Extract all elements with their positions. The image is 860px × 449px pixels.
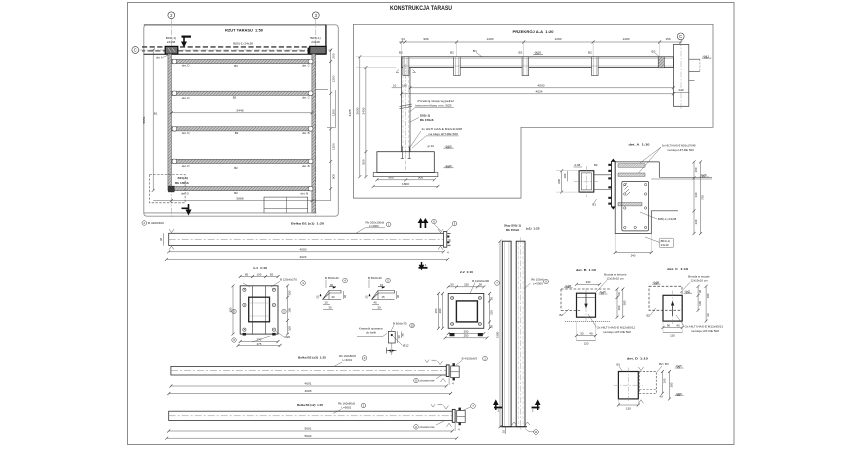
bracket piece (457, 411, 466, 423)
svg-text:L=4001: L=4001 (343, 358, 353, 362)
right dims (616, 289, 618, 317)
anchor arrow up (671, 302, 673, 316)
svg-text:200: 200 (438, 308, 442, 313)
svg-text:5601: 5601 (305, 427, 312, 431)
svg-text:2-2 1:10: 2-2 1:10 (460, 270, 473, 274)
svg-text:270: 270 (257, 337, 262, 341)
svg-text:det. D: det. D (182, 131, 190, 135)
svg-text:10: 10 (410, 324, 414, 328)
svg-text:330: 330 (694, 192, 698, 197)
svg-text:betonem klasy min. B25: betonem klasy min. B25 (416, 103, 452, 107)
svg-text:4x HILTI HAS-E M12x110/28: 4x HILTI HAS-E M12x110/28 (422, 127, 463, 131)
anchor bolt heads (608, 164, 611, 205)
leader lines from corners (243, 283, 250, 287)
svg-text:50: 50 (489, 325, 493, 329)
svg-text:38: 38 (159, 238, 163, 242)
svg-text:B 65x6x40: B 65x6x40 (368, 276, 382, 280)
svg-text:90: 90 (667, 323, 671, 327)
horizontal beam row1 B3 (171, 59, 312, 63)
detail 5 wedge (372, 291, 395, 300)
svg-text:30: 30 (698, 290, 702, 294)
svg-text:det. A 1:10: det. A 1:10 (629, 142, 650, 146)
footing (377, 152, 434, 173)
svg-text:B2: B2 (399, 51, 403, 55)
svg-text:150: 150 (489, 310, 493, 315)
svg-text:B2: B2 (647, 314, 651, 318)
svg-text:4024: 4024 (300, 255, 307, 259)
svg-text:30: 30 (328, 306, 332, 310)
label B04 box (659, 238, 674, 247)
bottom dims (663, 327, 682, 329)
svg-text:40: 40 (589, 331, 593, 335)
dim 240 at wall base (673, 92, 688, 94)
right end plate (452, 409, 455, 422)
svg-text:1200: 1200 (332, 75, 336, 82)
bottom dims (448, 333, 484, 335)
svg-text:B 4200/400: B 4200/400 (148, 221, 164, 225)
svg-text:40: 40 (676, 323, 680, 327)
svg-text:M20: M20 (285, 335, 291, 339)
svg-text:10: 10 (501, 430, 505, 434)
svg-text:B1: B1 (154, 112, 158, 116)
right vertical beam in plan (312, 54, 316, 213)
wall step outline top right (327, 90, 336, 128)
right dims (697, 286, 699, 310)
column S01 (401, 68, 403, 152)
footing dims (377, 179, 434, 181)
svg-text:1200: 1200 (332, 109, 336, 116)
top dimension line (399, 41, 681, 43)
bolts (243, 288, 276, 331)
svg-text:C: C (679, 34, 682, 39)
svg-text:2630: 2630 (355, 107, 359, 114)
svg-text:900: 900 (332, 174, 336, 179)
svg-text:250: 250 (464, 334, 469, 338)
svg-text:B 65x6x40: B 65x6x40 (325, 276, 339, 280)
left dim 38 (163, 233, 165, 245)
svg-text:30: 30 (389, 349, 393, 353)
B1 square section (618, 372, 638, 399)
B1 beam lines to plate (594, 174, 612, 176)
svg-text:25: 25 (365, 295, 369, 299)
svg-text:B05(-1) 24x38: B05(-1) 24x38 (233, 42, 253, 46)
svg-text:det. D: det. D (182, 64, 190, 68)
base line and welds (501, 426, 528, 428)
right dim line of plan (330, 50, 332, 201)
svg-text:B2: B2 (450, 51, 454, 55)
svg-text:B2: B2 (519, 51, 523, 55)
svg-text:gr.10: gr.10 (428, 144, 435, 148)
horizontal beam row5 B2 (174, 187, 312, 191)
svg-text:5551: 5551 (142, 116, 146, 123)
svg-text:240: 240 (631, 254, 636, 258)
svg-text:na kleju HIT-RE 500: na kleju HIT-RE 500 (603, 330, 631, 334)
bottom dim 150 (618, 404, 638, 406)
detail 4 wedge (323, 291, 342, 300)
bottom dims (577, 335, 596, 337)
svg-text:B2: B2 (234, 166, 238, 170)
svg-text:B 120x6x270: B 120x6x270 (280, 278, 297, 282)
svg-text:6x HILTI HAS-E M20x170/48: 6x HILTI HAS-E M20x170/48 (662, 143, 696, 147)
section 1 marker top (419, 219, 428, 228)
beam B2 body (171, 366, 446, 375)
svg-text:2x HILTI HAS-E M12x90/11: 2x HILTI HAS-E M12x90/11 (597, 325, 635, 329)
ribs between tube and plate (252, 286, 254, 297)
svg-text:24x40: 24x40 (661, 243, 669, 247)
svg-text:4024: 4024 (536, 90, 543, 94)
svg-text:Rb 150x6: Rb 150x6 (506, 228, 519, 232)
svg-text:det. D 1:10: det. D 1:10 (627, 357, 648, 361)
footing S01 dashed outline (150, 174, 186, 202)
svg-text:Rb 150x6: Rb 150x6 (175, 181, 189, 185)
svg-text:det. C: det. C (302, 64, 310, 68)
svg-text:100: 100 (287, 290, 291, 295)
svg-text:det. D: det. D (182, 96, 190, 100)
tube (456, 301, 477, 322)
top dims (448, 286, 484, 288)
baseplate (448, 294, 484, 329)
section A cut marker top (182, 36, 192, 46)
top dim 65 100 65 (240, 276, 278, 278)
svg-text:B1: B1 (617, 362, 621, 366)
svg-text:(x1) 1:25: (x1) 1:25 (526, 227, 540, 231)
svg-text:B2: B2 (588, 51, 592, 55)
svg-text:12x19x10 cm: 12x19x10 cm (691, 278, 709, 282)
svg-text:B3: B3 (234, 64, 238, 68)
svg-text:Belka B1 (x1) 1:20: Belka B1 (x1) 1:20 (291, 222, 324, 226)
svg-text:75: 75 (401, 333, 405, 337)
beam B2 end (663, 295, 682, 321)
svg-text:5448: 5448 (237, 108, 244, 112)
det B concrete outline dashed (561, 289, 611, 311)
section 2 markers (494, 401, 502, 411)
svg-text:do belki: do belki (366, 330, 376, 334)
svg-text:50: 50 (489, 297, 493, 301)
svg-text:L=5602: L=5602 (342, 406, 352, 410)
right dims (489, 294, 491, 329)
svg-text:Rb 150x6: Rb 150x6 (420, 118, 434, 122)
svg-text:det. A: det. A (156, 55, 163, 59)
svg-text:100: 100 (287, 326, 291, 331)
svg-text:190: 190 (617, 305, 621, 310)
svg-text:15: 15 (380, 283, 384, 287)
right dims (662, 372, 664, 394)
B2/B3 dashed beam side (639, 372, 656, 394)
svg-text:50: 50 (450, 283, 454, 287)
svg-text:3300: 3300 (496, 331, 500, 338)
connecting line row1 right (315, 89, 328, 91)
svg-text:100: 100 (706, 293, 710, 298)
svg-text:906: 906 (423, 37, 428, 41)
anchor bolts in footing (401, 147, 411, 159)
svg-text:100: 100 (563, 173, 567, 178)
svg-text:90: 90 (706, 313, 710, 317)
svg-text:B04(-1): B04(-1) (661, 239, 671, 243)
svg-text:275: 275 (257, 342, 262, 346)
top dim 240 (577, 283, 600, 285)
svg-text:200: 200 (332, 53, 336, 58)
svg-text:1200: 1200 (332, 143, 336, 150)
dim 10 under base (505, 427, 507, 434)
svg-text:obustronnie: obustronnie (420, 425, 435, 429)
svg-text:100: 100 (698, 301, 702, 306)
grid line 3 (315, 19, 317, 217)
svg-text:1200: 1200 (555, 37, 562, 41)
svg-text:obustronnie: obustronnie (420, 379, 435, 383)
circled 6 (432, 219, 437, 224)
svg-text:240: 240 (678, 88, 683, 92)
svg-text:B 60x6x75: B 60x6x75 (393, 322, 407, 326)
svg-text:12x19x10 cm: 12x19x10 cm (607, 276, 625, 280)
svg-text:-0.26: -0.26 (534, 51, 541, 55)
svg-text:190: 190 (287, 307, 291, 312)
weld right (438, 229, 443, 233)
vertical beam B1 in plan (168, 54, 172, 191)
leader B1 (476, 53, 482, 57)
svg-text:B1: B1 (592, 202, 596, 206)
svg-text:120: 120 (670, 334, 675, 338)
obustronnie circled 8 (414, 425, 419, 430)
svg-text:2430: 2430 (362, 107, 366, 114)
svg-text:5602: 5602 (305, 434, 312, 438)
svg-text:det. C: det. C (302, 96, 310, 100)
svg-text:24x38: 24x38 (311, 40, 320, 44)
weld marks (639, 367, 644, 371)
svg-text:500: 500 (362, 159, 366, 164)
circled 3 (452, 221, 457, 226)
plan top wall outline thick (144, 24, 326, 26)
svg-text:4000: 4000 (300, 248, 307, 252)
svg-text:na kleju HIT-RE 500: na kleju HIT-RE 500 (429, 132, 459, 136)
svg-text:det. D: det. D (182, 164, 190, 168)
svg-text:200: 200 (557, 179, 561, 184)
welds at right end (438, 361, 443, 365)
svg-text:S01(-1): S01(-1) (178, 176, 188, 180)
right end plate (443, 232, 446, 248)
svg-text:B2 / B3: B2 / B3 (659, 362, 669, 366)
bottom hatch strip (565, 320, 610, 322)
svg-text:B3: B3 (652, 50, 656, 54)
svg-text:-0.08: -0.08 (574, 163, 581, 167)
svg-text:40: 40 (373, 301, 377, 305)
section 1 marker bottom (419, 262, 428, 269)
svg-text:3428: 3428 (348, 109, 352, 116)
drawing frame (128, 3, 735, 445)
beam B2 end entering groove (577, 293, 596, 317)
svg-text:40: 40 (660, 394, 664, 398)
concrete outline (615, 162, 678, 234)
svg-text:10: 10 (324, 301, 328, 305)
svg-text:240: 240 (586, 280, 591, 284)
svg-text:230: 230 (694, 219, 698, 224)
wall column at grid 2 (165, 46, 178, 54)
svg-text:11: 11 (535, 430, 538, 434)
main beam B1 elevation (402, 57, 674, 68)
beam B1 body (169, 233, 444, 245)
corner bolts extension marks (450, 333, 455, 336)
svg-text:B2: B2 (233, 96, 237, 100)
svg-text:Ø12: Ø12 (403, 344, 409, 348)
svg-text:160: 160 (694, 167, 698, 172)
svg-text:1200: 1200 (623, 37, 630, 41)
svg-text:900: 900 (388, 176, 393, 180)
svg-text:50: 50 (479, 283, 483, 287)
svg-text:30: 30 (396, 295, 400, 299)
svg-text:160: 160 (662, 378, 666, 383)
svg-text:20: 20 (343, 295, 347, 299)
circled 11 (534, 430, 539, 435)
weld symbols left end (169, 229, 174, 233)
svg-text:1200: 1200 (487, 37, 494, 41)
horizontal beam row4 B2 (171, 159, 312, 163)
bottom dim 240 (615, 252, 651, 254)
svg-text:PRZEKRÓJ A-A 1:20: PRZEKRÓJ A-A 1:20 (513, 29, 554, 34)
rebar circles (624, 183, 647, 228)
right dims (287, 286, 289, 334)
svg-text:L=3300: L=3300 (533, 281, 543, 285)
small dims 10 150 (392, 87, 402, 89)
B2 stub hangers (403, 57, 598, 76)
section A-A enclosing box (353, 24, 713, 198)
baseplate (240, 286, 278, 334)
svg-text:B 4/100x6/3: B 4/100x6/3 (462, 357, 478, 361)
svg-text:B2: B2 (560, 313, 564, 317)
svg-text:34: 34 (401, 37, 405, 41)
svg-text:det. B 1:10: det. B 1:10 (576, 268, 596, 272)
svg-text:det. C 1:10: det. C 1:10 (667, 267, 688, 271)
section A cut marker bottom (182, 204, 191, 214)
right end plate (446, 365, 449, 377)
svg-text:150: 150 (402, 84, 407, 88)
left dim line 5551 (152, 50, 154, 190)
vertical extension lines from dim to beam (402, 42, 681, 57)
left dims (442, 294, 444, 329)
svg-text:RZUT TARASU 1:50: RZUT TARASU 1:50 (225, 28, 263, 32)
obustronnie circled 8 (414, 378, 419, 383)
svg-text:1-1 1:10: 1-1 1:10 (253, 266, 267, 270)
wall at grid C (673, 45, 688, 107)
svg-text:Belka B2 (x3) 1:25: Belka B2 (x3) 1:25 (298, 356, 326, 360)
svg-text:B1: B1 (473, 49, 477, 53)
left dims (561, 171, 563, 192)
svg-text:4001: 4001 (305, 382, 312, 386)
svg-text:30: 30 (331, 295, 335, 299)
svg-text:det. B: det. B (301, 192, 309, 196)
svg-text:50: 50 (580, 331, 584, 335)
svg-text:150: 150 (464, 283, 469, 287)
wall notch right (689, 58, 700, 60)
svg-text:5888: 5888 (237, 196, 244, 200)
svg-text:L=4000: L=4000 (369, 224, 379, 228)
svg-text:B2: B2 (234, 191, 238, 195)
svg-text:200: 200 (669, 382, 673, 387)
horizontal beam row3 B2 (171, 127, 312, 131)
left dims (232, 286, 234, 334)
svg-text:B05(-1) 24x38: B05(-1) 24x38 (658, 217, 677, 221)
left small tube detail (579, 171, 594, 192)
plan lower slab edge (144, 212, 317, 214)
svg-text:4000: 4000 (538, 84, 545, 88)
svg-text:150: 150 (626, 406, 631, 410)
svg-text:det. B: det. B (302, 164, 310, 168)
column break marks (400, 104, 413, 107)
wall column at grid 3 (310, 46, 326, 54)
bolts (451, 296, 482, 325)
svg-text:4005: 4005 (305, 389, 312, 393)
beam B3 body (169, 411, 453, 420)
svg-text:24x38: 24x38 (167, 40, 176, 44)
bottom dims (240, 341, 278, 343)
svg-text:1: 1 (425, 263, 427, 267)
svg-text:100: 100 (256, 272, 261, 276)
column bar left (view) (502, 241, 511, 427)
svg-text:25: 25 (316, 295, 320, 299)
stirrup in concrete (622, 181, 649, 231)
svg-text:det. B: det. B (302, 131, 310, 135)
end plate (612, 161, 616, 206)
grid line C (139, 49, 332, 51)
horizontal beam row2 B2 (171, 91, 312, 95)
svg-text:Belka B3 (x2) 1:25: Belka B3 (x2) 1:25 (297, 403, 323, 407)
labels above beam (399, 49, 592, 55)
column bar right (section strip) (516, 241, 525, 427)
left vertical dims 3300 3298 (499, 241, 501, 427)
stairs box bottom right (264, 197, 308, 213)
svg-text:15: 15 (381, 295, 385, 299)
svg-text:38: 38 (448, 239, 452, 243)
label (2) B 4200/400 (142, 221, 147, 226)
diagonal rebar hatch marks (624, 183, 631, 196)
right dims (693, 162, 695, 234)
svg-text:na kleju HIT-RE 500: na kleju HIT-RE 500 (667, 148, 694, 152)
anchor arrow down (585, 293, 587, 307)
bracket piece (451, 366, 460, 378)
svg-text:65: 65 (270, 272, 274, 276)
svg-text:30: 30 (377, 306, 381, 310)
svg-text:KONSTRUKCJA TARASU: KONSTRUKCJA TARASU (390, 6, 452, 12)
konektor plate (388, 331, 395, 343)
svg-text:10: 10 (393, 84, 397, 88)
svg-text:2x HILTI HAS-E M12x90/21: 2x HILTI HAS-E M12x90/21 (685, 325, 723, 329)
svg-text:900: 900 (418, 176, 423, 180)
svg-text:Słup S01(-1): Słup S01(-1) (504, 224, 521, 228)
welds (444, 406, 449, 410)
svg-text:720: 720 (701, 195, 705, 200)
plan view outer box (144, 25, 338, 216)
svg-text:150: 150 (665, 37, 670, 41)
bottom dim (387, 348, 397, 354)
svg-text:120: 120 (584, 342, 589, 346)
svg-text:280: 280 (623, 300, 627, 305)
svg-text:65: 65 (245, 272, 249, 276)
svg-text:2: 2 (532, 408, 534, 412)
wall B05 dashed band (142, 46, 326, 48)
circled 5 labels (232, 309, 236, 313)
anchors hatched rows (618, 164, 645, 206)
svg-text:40: 40 (330, 283, 334, 287)
det C concrete outline dashed (649, 286, 682, 310)
svg-text:2: 2 (498, 408, 500, 412)
grid line 2 (170, 19, 172, 217)
weld symbols at column top (396, 70, 399, 73)
svg-text:C: C (134, 48, 137, 53)
svg-text:B2: B2 (594, 163, 598, 167)
circled 7 (471, 404, 476, 409)
svg-text:na kleju HIT-RE 500: na kleju HIT-RE 500 (691, 329, 719, 333)
svg-text:1800: 1800 (402, 182, 409, 186)
svg-text:250: 250 (434, 308, 438, 313)
left vertical dims (359, 57, 361, 177)
